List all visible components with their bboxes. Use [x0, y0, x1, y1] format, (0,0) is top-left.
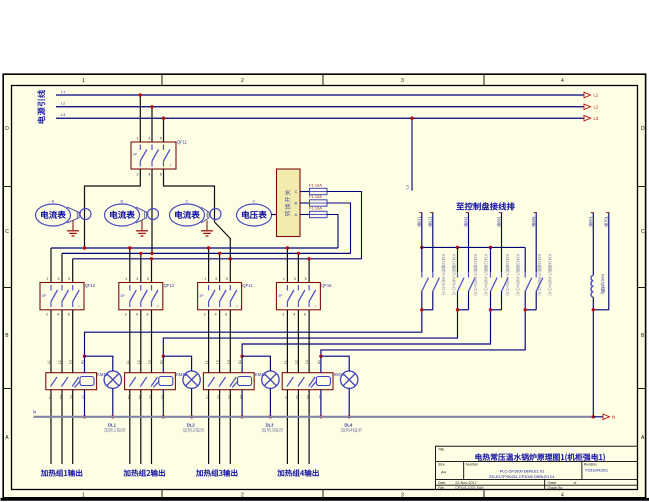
- contact KM14 aux (x2): [525, 254, 553, 310]
- wire TA2 secondary: [136, 207, 147, 213]
- svg-text:L3: L3: [61, 113, 65, 117]
- lamp DL1 指示灯: [104, 371, 121, 388]
- svg-text:L1: L1: [594, 93, 599, 98]
- lamp DL3 指示灯: [262, 371, 279, 388]
- wire SA1 B to fuse: [300, 202, 310, 204]
- wire pair 4 bottom link: [525, 309, 536, 311]
- svg-text:QF12: QF12: [85, 283, 96, 288]
- meter PB1 电流表: [105, 200, 140, 227]
- svg-text:F1 10A: F1 10A: [309, 194, 322, 199]
- svg-text:of: of: [574, 481, 577, 485]
- svg-text:KM14辅助T-A9(N-O:A): KM14辅助T-A9(N-O:A): [537, 254, 543, 296]
- svg-text:QF11: QF11: [177, 140, 188, 145]
- svg-text:F1 10A: F1 10A: [309, 206, 322, 211]
- bus lamp feed: [422, 246, 525, 248]
- selector switch SA1 转换开关: [277, 169, 301, 237]
- svg-text:L3: L3: [226, 360, 230, 364]
- contactor KM14: [282, 360, 345, 399]
- svg-text:4: 4: [293, 313, 295, 317]
- wire branch 2 phase taps: [125, 246, 153, 282]
- wire coil feed KM14: [321, 310, 525, 373]
- svg-text:5: 5: [160, 137, 162, 141]
- svg-text:FC511041021: FC511041021: [586, 469, 609, 473]
- svg-text:2: 2: [241, 492, 244, 498]
- svg-text:KM15(线圈): KM15(线圈): [601, 274, 606, 295]
- svg-text:Drawn By:: Drawn By:: [548, 486, 564, 490]
- svg-text:A1: A1: [238, 360, 242, 364]
- svg-text:4: 4: [148, 173, 150, 177]
- svg-text:A1: A1: [317, 360, 321, 364]
- wire phase A QF11 to bus A: [85, 169, 141, 248]
- svg-text:N: N: [612, 415, 615, 420]
- svg-text:1: 1: [137, 137, 139, 141]
- svg-text:3: 3: [294, 277, 296, 281]
- svg-text:2: 2: [137, 173, 139, 177]
- wire coil feed KM13: [242, 310, 490, 373]
- label DL3: [262, 423, 283, 433]
- net label 加热组2输出: [124, 469, 165, 476]
- svg-text:L3: L3: [148, 360, 152, 364]
- wire branch 3 breaker to contactor: [204, 310, 232, 399]
- svg-text:L3: L3: [406, 185, 410, 189]
- svg-text:DL2: DL2: [187, 423, 196, 428]
- svg-text:6: 6: [304, 313, 306, 317]
- svg-text:6: 6: [160, 173, 162, 177]
- svg-text:4: 4: [561, 78, 564, 84]
- contact KM13 aux (x2): [491, 254, 522, 310]
- wire KM12 A2 to N: [162, 390, 164, 417]
- wire lamp DL3 top: [242, 356, 270, 371]
- wire pair 2 bottom link: [458, 309, 469, 311]
- wire L3: [56, 117, 584, 119]
- svg-text:3: 3: [401, 492, 404, 498]
- net label 加热组1输出: [41, 469, 82, 476]
- svg-text:D: D: [641, 126, 645, 132]
- svg-text:KM11辅助T-A9(N-O:A): KM11辅助T-A9(N-O:A): [441, 254, 447, 296]
- wire pair 3 bottom link: [491, 309, 502, 311]
- svg-text:L3: L3: [305, 360, 309, 364]
- svg-text:D: D: [5, 126, 9, 132]
- svg-text:Number: Number: [466, 462, 479, 466]
- contact KM12 aux (x2): [458, 254, 490, 310]
- wire branch 1 output: [51, 390, 73, 464]
- svg-text:L2: L2: [61, 102, 65, 106]
- wire TA3 secondary: [201, 207, 210, 213]
- svg-text:QF14: QF14: [242, 283, 253, 288]
- svg-text:L1: L1: [47, 360, 51, 364]
- svg-text:L3: L3: [594, 116, 599, 121]
- breaker QF12: [40, 283, 96, 310]
- svg-text:C: C: [5, 229, 9, 235]
- wire fuse B to bus: [327, 203, 351, 253]
- terminal wires coil KM: [589, 213, 610, 310]
- wire KM13 A2 to N: [241, 390, 243, 417]
- contactor KM12: [125, 360, 188, 399]
- svg-text:5: 5: [305, 277, 307, 281]
- fuse F1 10A (B): [309, 194, 327, 206]
- svg-text:DL4: DL4: [344, 423, 353, 428]
- svg-text:3P: 3P: [120, 294, 125, 298]
- terminal wire pair 4: [525, 213, 537, 273]
- svg-text:L1: L1: [126, 360, 130, 364]
- svg-text:6: 6: [225, 313, 227, 317]
- wire lamp DL3 bottom to N: [269, 388, 271, 416]
- wire SA1 A to fuse: [300, 214, 310, 216]
- wire fuse A to bus: [327, 215, 338, 249]
- svg-text:F1 10A: F1 10A: [309, 183, 322, 188]
- svg-text:KM12辅助T-A9(N-O:A): KM12辅助T-A9(N-O:A): [484, 254, 490, 296]
- bus N: [34, 416, 594, 418]
- meter PV1 电压表: [237, 200, 272, 227]
- breaker QF14: [198, 283, 254, 310]
- wire lamp DL4 top: [321, 356, 349, 371]
- current transformer TA1: [80, 209, 91, 220]
- svg-text:2: 2: [125, 313, 127, 317]
- lamp DL4 指示灯: [341, 371, 358, 388]
- svg-text:1: 1: [82, 492, 85, 498]
- wire SA1 C to fuse: [300, 191, 310, 193]
- fuse F1 10A (C): [309, 183, 327, 195]
- svg-text:L2: L2: [216, 360, 220, 364]
- junction CT feeds: [83, 246, 86, 249]
- svg-text:5: 5: [226, 277, 228, 281]
- net label 加热组4输出: [277, 469, 318, 476]
- ground: [201, 221, 213, 237]
- svg-text:2: 2: [241, 78, 244, 84]
- wire L2: [56, 106, 584, 108]
- lamp DL2 指示灯: [183, 371, 200, 388]
- wire KM14 A2 to N: [320, 390, 322, 417]
- svg-text:A4: A4: [441, 470, 447, 475]
- wire coil to N bus: [592, 297, 594, 417]
- terminal wire pair 1: [417, 213, 433, 273]
- wire branch 3 phase taps: [204, 246, 232, 282]
- svg-text:QF13: QF13: [164, 283, 175, 288]
- svg-text:5: 5: [147, 277, 149, 281]
- svg-text:3P: 3P: [42, 294, 47, 298]
- svg-text:DL3: DL3: [266, 423, 275, 428]
- svg-text:1: 1: [47, 277, 49, 281]
- wire L3 to control panel: [411, 118, 413, 191]
- svg-text:L2: L2: [294, 360, 298, 364]
- svg-text:C: C: [186, 200, 189, 204]
- ground: [67, 221, 79, 237]
- svg-text:KM11辅助T-A9(N-O:A): KM11辅助T-A9(N-O:A): [452, 254, 458, 296]
- svg-text:4: 4: [215, 313, 217, 317]
- svg-text:A1: A1: [81, 360, 85, 364]
- svg-text:CP115-1021.Ddb: CP115-1021.Ddb: [455, 486, 483, 490]
- wire lamp DL2 bottom to N: [191, 388, 193, 416]
- svg-text:A1: A1: [159, 360, 163, 364]
- wire lamp DL2 top: [163, 356, 191, 371]
- contactor KM11: [46, 360, 109, 399]
- svg-text:6: 6: [68, 313, 70, 317]
- svg-text:4: 4: [57, 313, 59, 317]
- wire branch 3 output: [209, 390, 231, 464]
- meter PA1 电流表: [36, 200, 71, 227]
- svg-text:DL1: DL1: [108, 423, 117, 428]
- fuse F1 10A (A): [309, 206, 327, 218]
- svg-text:L1: L1: [61, 90, 65, 94]
- svg-text:KM13辅助T-A9(N-O:A): KM13辅助T-A9(N-O:A): [516, 254, 522, 296]
- port L1: [584, 92, 591, 98]
- wire branch 1 phase taps: [47, 248, 73, 283]
- svg-text:KM14辅助T-A9(N-O:A): KM14辅助T-A9(N-O:A): [548, 254, 554, 296]
- wire lamp DL4 bottom to N: [348, 388, 350, 416]
- title block: [436, 446, 638, 490]
- meter PC1 电流表: [170, 200, 205, 227]
- svg-text:2: 2: [204, 313, 206, 317]
- svg-text:3: 3: [136, 277, 138, 281]
- svg-text:1: 1: [204, 277, 206, 281]
- svg-text:QF15: QF15: [321, 283, 332, 288]
- svg-text:22-Nov-2017: 22-Nov-2017: [455, 481, 476, 485]
- wire lamp DL1 bottom to N: [112, 388, 114, 416]
- svg-text:Size: Size: [438, 462, 445, 466]
- bus C: [73, 258, 362, 260]
- port L2: [584, 104, 591, 110]
- svg-text:L1: L1: [205, 360, 209, 364]
- label DL4: [341, 423, 362, 433]
- wire pair 1 bottom link: [422, 309, 433, 311]
- breaker QF15: [276, 283, 332, 310]
- wire TA1 secondary: [67, 207, 80, 213]
- svg-text:ED-E1TF*0022L CP1000 DERLE1 01: ED-E1TF*0022L CP1000 DERLE1 01: [489, 474, 554, 479]
- svg-text:3: 3: [401, 78, 404, 84]
- current transformer TA2: [148, 209, 159, 220]
- svg-text:3P: 3P: [199, 294, 204, 298]
- wire branch 1 breaker to contactor: [46, 310, 74, 399]
- terminal wire pair 3: [491, 213, 503, 273]
- svg-text:4: 4: [561, 492, 564, 498]
- port N: [593, 416, 602, 418]
- terminal wire pair 2: [458, 213, 470, 273]
- svg-text:L2: L2: [58, 360, 62, 364]
- svg-text:Title: Title: [438, 447, 444, 451]
- net label 加热组3输出: [196, 469, 237, 476]
- wire branch 4 output: [287, 390, 309, 464]
- svg-text:3: 3: [58, 277, 60, 281]
- wire branch 2 output: [130, 390, 152, 464]
- svg-text:KM12辅助T-A9(N-O:A): KM12辅助T-A9(N-O:A): [473, 254, 479, 296]
- svg-text:3P: 3P: [278, 294, 283, 298]
- svg-text:2: 2: [46, 313, 48, 317]
- contactor KM13: [203, 360, 266, 399]
- svg-text:3P: 3P: [133, 153, 138, 157]
- breaker QF11: [131, 137, 188, 177]
- svg-text:L2: L2: [137, 360, 141, 364]
- svg-text:4: 4: [136, 313, 138, 317]
- wire branch 2 breaker to contactor: [125, 310, 153, 399]
- contact KM11 aux (x2): [422, 254, 458, 310]
- wire KM11 A2 to N: [84, 390, 86, 417]
- current transformer TA3: [210, 209, 221, 220]
- wire L3 to QF11 pin: [163, 118, 165, 142]
- wire coil return: [593, 309, 609, 311]
- breaker QF13: [119, 283, 175, 310]
- wire L1: [56, 94, 584, 96]
- wire phase B QF11 to bus B: [151, 169, 153, 253]
- svg-text:L1: L1: [283, 360, 287, 364]
- wire fuse C to bus: [327, 192, 362, 259]
- svg-text:C: C: [641, 229, 645, 235]
- label DL2: [183, 423, 204, 433]
- svg-text:N: N: [33, 410, 36, 415]
- wire L1 to QF11 pin: [139, 95, 141, 142]
- svg-text:1: 1: [283, 277, 285, 281]
- wire branch 4 breaker to contactor: [282, 310, 310, 399]
- svg-text:A: A: [295, 212, 298, 217]
- svg-text:B: B: [295, 201, 298, 206]
- svg-text:Sheet: Sheet: [548, 481, 557, 485]
- svg-text:Revision: Revision: [584, 462, 597, 466]
- bus A: [51, 247, 338, 249]
- svg-text:6: 6: [147, 313, 149, 317]
- svg-text:L3: L3: [69, 360, 73, 364]
- wire branch 4 phase taps: [283, 246, 311, 282]
- svg-text:L2: L2: [594, 104, 599, 109]
- svg-text:2: 2: [282, 313, 284, 317]
- coil KM15 线圈: [591, 274, 605, 297]
- wire voltmeter to selector switch: [272, 214, 277, 216]
- svg-text:1: 1: [125, 277, 127, 281]
- net label 至控制盘接线排: [457, 202, 515, 210]
- wire L2 to QF11 pin: [151, 107, 153, 142]
- net label 电源引线: [37, 90, 45, 123]
- wire phase C diagonal jog: [215, 222, 231, 259]
- wire lamp DL1 top: [85, 356, 113, 371]
- wire coil feed KM12: [163, 310, 457, 373]
- ground: [136, 221, 148, 237]
- wire phase C QF11 to bus C: [164, 169, 215, 222]
- port L3: [584, 115, 591, 121]
- svg-text:3: 3: [148, 137, 150, 141]
- svg-text:KM13辅助T-A9(N-O:A): KM13辅助T-A9(N-O:A): [505, 254, 511, 296]
- bus B: [62, 252, 351, 254]
- svg-text:C: C: [295, 189, 298, 194]
- svg-text:Date:: Date:: [438, 481, 446, 485]
- svg-text:1: 1: [82, 78, 85, 84]
- wire coil feed KM11: [85, 310, 422, 373]
- label DL1: [104, 423, 125, 433]
- svg-text:3: 3: [215, 277, 217, 281]
- svg-text:File:: File:: [438, 486, 444, 490]
- svg-text:5: 5: [68, 277, 70, 281]
